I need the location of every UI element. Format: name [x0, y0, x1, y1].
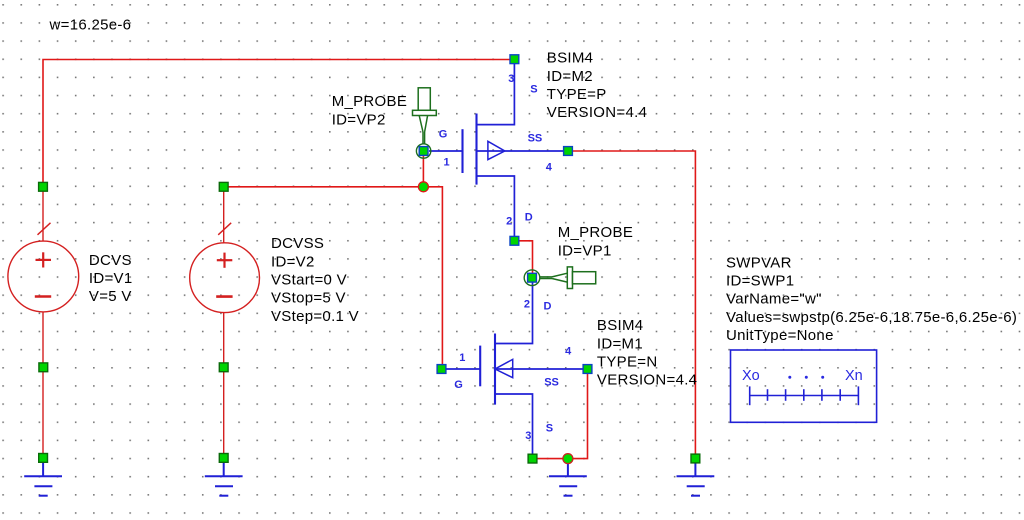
transistor M1 NMOS body	[446, 282, 583, 455]
svg-text:Xo: Xo	[742, 368, 760, 384]
terminal V1 mid	[39, 363, 48, 372]
svg-text:4: 4	[565, 346, 572, 358]
svg-text:TYPE=P: TYPE=P	[547, 86, 607, 103]
svg-text:VStep=0.1 V: VStep=0.1 V	[271, 308, 359, 325]
svg-text:SS: SS	[544, 377, 559, 389]
terminal V1 top	[39, 182, 48, 191]
terminal M1 pin1	[437, 365, 446, 374]
svg-text:SS: SS	[528, 133, 543, 145]
svg-text:2: 2	[506, 216, 512, 228]
svg-text:ID=V2: ID=V2	[271, 253, 315, 270]
transistor M2 PMOS body	[429, 63, 564, 238]
voltage source V1 DCVS	[8, 191, 79, 458]
terminal V2 ground	[219, 454, 228, 463]
wire M2 drain pin2 to probe node VP1	[514, 241, 532, 278]
terminal right rail ground	[691, 454, 700, 463]
ground at M1 source junction	[549, 462, 587, 496]
ground at right rail	[677, 462, 715, 496]
svg-text:VERSION=4.4: VERSION=4.4	[547, 104, 647, 121]
svg-text:V=5 V: V=5 V	[89, 288, 132, 305]
svg-text:w=16.25e-6: w=16.25e-6	[49, 17, 132, 34]
svg-text:M_PROBE: M_PROBE	[332, 93, 407, 110]
svg-text:BSIM4: BSIM4	[547, 50, 594, 67]
wire M2 pin4 SS to right ground	[568, 151, 695, 459]
svg-text:ID=V1: ID=V1	[89, 270, 133, 287]
svg-text:S: S	[530, 84, 537, 96]
svg-text:DCVS: DCVS	[89, 252, 132, 269]
svg-text:1: 1	[444, 156, 450, 168]
svg-text:2: 2	[524, 299, 530, 311]
wire VDD rail from V1 to M2 pin3	[43, 60, 514, 187]
probe M_PROBE VP2 icon	[413, 88, 437, 158]
svg-text:Values=swpstp(6.25e-6,18.75e-6: Values=swpstp(6.25e-6,18.75e-6,6.25e-6)	[726, 309, 1017, 326]
terminal M2 pin3	[510, 55, 519, 64]
svg-text:ID=SWP1: ID=SWP1	[726, 273, 794, 290]
svg-text:VERSION=4.4: VERSION=4.4	[597, 372, 697, 389]
svg-text:1: 1	[459, 352, 465, 364]
wire M1 source pin3 to ground junction and up to pin4	[533, 369, 588, 459]
svg-text:ID=VP2: ID=VP2	[332, 111, 386, 128]
ground under V1	[24, 462, 62, 496]
svg-text:M_PROBE: M_PROBE	[558, 224, 633, 241]
svg-text:VStop=5 V: VStop=5 V	[271, 290, 346, 307]
svg-text:G: G	[454, 379, 463, 391]
svg-text:S: S	[546, 423, 553, 435]
terminal M2 pin1 gate probe node	[419, 147, 428, 156]
ground under V2	[205, 462, 243, 496]
svg-text:3: 3	[525, 430, 531, 442]
terminal V2 top	[219, 182, 228, 191]
terminal V2 mid	[219, 363, 228, 372]
terminal M1 pin3	[528, 454, 537, 463]
svg-text:3: 3	[508, 73, 514, 85]
svg-text:VarName="w": VarName="w"	[726, 291, 822, 308]
node junction at M1 source ground	[563, 454, 573, 464]
terminal M2 pin4	[564, 147, 573, 156]
terminal M1 pin2 drain probe node	[528, 273, 537, 282]
svg-text:ID=VP1: ID=VP1	[558, 242, 612, 259]
terminal V1 ground	[39, 454, 48, 463]
svg-text:4: 4	[546, 162, 553, 174]
wire V2 plus to gate junction	[224, 186, 424, 188]
svg-text:DCVSS: DCVSS	[271, 235, 324, 252]
svg-text:D: D	[544, 301, 552, 313]
svg-text:UnitType=None: UnitType=None	[726, 327, 834, 344]
svg-text:D: D	[525, 212, 533, 224]
SWPVAR sweep box	[731, 350, 877, 422]
svg-text:Xn: Xn	[845, 368, 863, 384]
probe M_PROBE VP1 icon	[524, 267, 596, 289]
voltage source V2 DCVSS	[190, 191, 260, 458]
svg-text:G: G	[439, 129, 448, 141]
svg-text:BSIM4: BSIM4	[597, 317, 644, 334]
svg-text:VStart=0 V: VStart=0 V	[271, 272, 347, 289]
terminal M2 pin2	[510, 236, 519, 245]
svg-text:ID=M2: ID=M2	[547, 68, 593, 85]
wire junction to M1 gate pin1	[423, 187, 442, 369]
svg-text:ID=M1: ID=M1	[597, 335, 643, 352]
svg-text:SWPVAR: SWPVAR	[726, 254, 792, 271]
terminal M1 pin4	[583, 365, 592, 374]
node junction at gates	[418, 182, 428, 192]
wire junction up to M2 gate probe node	[422, 151, 424, 187]
svg-text:TYPE=N: TYPE=N	[597, 353, 658, 370]
